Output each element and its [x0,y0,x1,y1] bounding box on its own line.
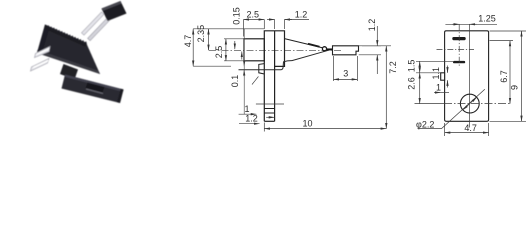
svg-text:2.5: 2.5 [247,9,260,19]
hole circle [460,94,479,113]
photo: switch assembly [31,1,127,103]
photo: lower bracket bar [62,75,124,104]
dim 2.5 left vertical [224,39,246,61]
terminal foot steps [264,109,274,114]
lever upper edge [285,39,323,48]
plate outline [264,31,284,122]
svg-text:2.5: 2.5 [214,46,224,59]
svg-text:1.2: 1.2 [295,9,308,19]
svg-text:2.35: 2.35 [196,25,206,43]
plate inner edge / leg right edge [274,31,276,122]
hook below housing [259,64,265,74]
photo: spring strap upper [82,12,105,35]
dim 6.7 [509,41,511,104]
contact strip under body [239,50,331,70]
dim 1.25 [445,23,497,25]
dim 4.7 bottom [445,123,489,136]
lever tip curl [322,47,326,51]
ext lines right dims [490,30,527,32]
slot B (filled) [453,61,465,63]
dim 2.35 vertical [208,29,210,51]
photo: metal pin 2 [31,59,50,72]
svg-text:1.25: 1.25 [478,14,496,24]
body outline [445,31,489,122]
lever tip contact bar [327,48,333,50]
dim 10 baseline [263,123,265,132]
svg-text:1.5: 1.5 [407,60,417,73]
dia leader line [442,89,485,128]
svg-text:7.2: 7.2 [388,61,398,74]
dim 7.2 [362,45,391,47]
svg-text:1: 1 [436,83,441,93]
svg-text:4.7: 4.7 [464,123,477,133]
slot center line vertical [458,24,460,66]
svg-text:0.15: 0.15 [231,7,241,25]
dim 1 tab width [434,92,441,94]
dim 0.1 [243,60,245,66]
dim 2.6 [419,73,421,104]
svg-text:1.1: 1.1 [431,67,441,80]
photo: rack teeth [45,26,87,47]
dim 4.7 vertical [192,29,194,66]
pin housing box [244,39,264,61]
leg bottom edge [264,120,274,122]
horizontal axis stub [437,49,475,51]
dim 9 [521,31,523,121]
extension line plate bottom [193,65,231,67]
svg-text:0.1: 0.1 [230,75,240,88]
svg-text:4.7: 4.7 [183,35,193,48]
photo: switch body block [37,25,100,75]
svg-text:1.2: 1.2 [367,19,377,32]
dim 1 bottom left [239,113,257,115]
dim 1.2 right vertical [359,46,381,55]
photo: center boss [60,64,78,80]
hole vertical center line [469,24,471,127]
svg-text:10: 10 [302,118,312,128]
dim 2.5 top [243,20,245,37]
dim 3 [334,56,358,81]
svg-text:9: 9 [509,85,519,90]
svg-text:φ2.2: φ2.2 [416,119,434,129]
dim 1.2 bottom left [239,123,260,125]
center line axis [209,49,341,51]
svg-text:2.6: 2.6 [407,77,417,90]
extension line top reference [193,28,264,30]
photo: bracket slot [86,83,105,93]
photo: metal pin 1 [35,47,51,58]
dim 1.5 [419,61,421,73]
left tab [441,73,445,80]
slot A (filled) [452,37,465,40]
dim 1.1 tab height [447,66,449,73]
extension line housing left [243,29,245,114]
photo: actuator cap [102,1,127,21]
foot arrow inside leg [266,116,274,118]
photo: spring strap lower [88,18,110,41]
hole horizontal center line [415,103,445,105]
svg-text:1.2: 1.2 [245,114,258,124]
actuator block [333,46,359,55]
dim 0.15 gap arrows [234,41,236,49]
svg-text:3: 3 [343,68,348,78]
ext lines left dims [416,60,453,62]
dim 1.2 top [275,20,285,30]
svg-text:6.7: 6.7 [499,70,509,83]
svg-text:1: 1 [244,104,249,114]
extension line through leg [256,103,284,105]
